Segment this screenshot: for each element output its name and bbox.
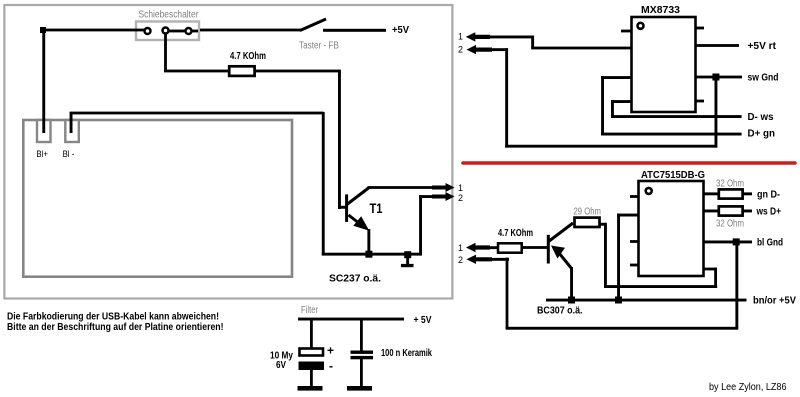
wire arrow1 to R2 [489, 246, 499, 249]
svg-text:4.7 KOhm: 4.7 KOhm [230, 51, 266, 62]
slide switch S1 box [136, 22, 199, 41]
ground bar [401, 264, 414, 267]
wire to Taster [200, 29, 301, 32]
wire Bl- horizontal [70, 112, 324, 115]
wire ws D+ out [742, 210, 752, 213]
svg-text:gn D-: gn D- [757, 189, 780, 200]
wire bl Gnd pin [703, 241, 752, 244]
capacitor C2 plate 2 [351, 356, 374, 359]
arrow 1 right [432, 183, 455, 192]
IC U2 ATC7515DB-G body [639, 181, 704, 276]
wire bottom horizontal to ground [322, 253, 422, 256]
display module rectangle [23, 120, 292, 277]
wire emitter down [570, 267, 573, 300]
wire D- ws pin left [611, 100, 632, 103]
wire between pin2 and pin3 [169, 30, 185, 33]
wire arrow2 bottom horizontal [505, 145, 717, 148]
wire Bl- vertical [70, 112, 73, 133]
wire U2 bottom right down [714, 268, 717, 288]
wire arrow2 right [490, 258, 509, 261]
wire emitter down [367, 229, 370, 255]
resistor R1 [229, 66, 254, 76]
junction U2 pin on +5V rail [615, 297, 622, 304]
svg-text:2: 2 [458, 255, 463, 265]
wire down left of T1 [322, 112, 325, 256]
pin stub left 1 U2 [630, 195, 639, 198]
wire C2 top lead [360, 319, 363, 351]
wire arrow2 down [505, 48, 508, 147]
wire 29 Ohm vertical [604, 223, 607, 287]
svg-text:1: 1 [458, 243, 463, 253]
wire arrow2 horizontal [490, 48, 508, 51]
svg-text:T1: T1 [370, 200, 383, 216]
wire ground loop bottom [506, 327, 739, 330]
wire D- ws horizontal [611, 115, 742, 118]
svg-text:+ 5V: + 5V [414, 315, 432, 326]
wire from pin2 down [164, 33, 167, 72]
svg-text:Bitte an der Beschriftung auf: Bitte an der Beschriftung auf der Platin… [7, 322, 224, 333]
node corner junction [40, 27, 46, 33]
wire U2 bottom right horizontal [604, 285, 717, 288]
resistor 32 Ohm bottom [719, 206, 743, 215]
svg-text:100 n Keramik: 100 n Keramik [381, 348, 432, 359]
capacitor C1 minus plate [299, 362, 325, 371]
outer gray frame [4, 5, 452, 299]
pin box Bl+ [37, 120, 51, 142]
IC U2 pin1 marker [646, 188, 652, 194]
wire U2 left pin [617, 214, 639, 217]
wire up to arrow 2 [419, 195, 422, 255]
switch pin 3 [186, 28, 192, 34]
wire D- ws vertical [611, 100, 614, 117]
arrow 2 right [432, 192, 455, 201]
wire R2 to base [521, 246, 547, 249]
arrow 1 left (USB plug) [466, 32, 490, 41]
svg-text:Bl -: Bl - [63, 149, 75, 160]
svg-text:bl Gnd: bl Gnd [757, 237, 783, 248]
wire collector to arrow [368, 186, 436, 189]
IC U1 MX8733 body [632, 17, 696, 112]
ground stub [406, 254, 409, 265]
pin stub right bottom U1 [696, 100, 704, 103]
transistor T1 emitter arrowhead [353, 216, 369, 231]
junction emitter/bottom [365, 251, 372, 258]
svg-text:ATC7515DB-G: ATC7515DB-G [641, 170, 705, 181]
resistor 32 Ohm top [719, 189, 743, 198]
wire ground loop up to bl Gnd [735, 241, 738, 329]
arrow 1 left (bottom) [466, 243, 490, 252]
svg-text:-: - [329, 359, 333, 373]
svg-text:MX8733: MX8733 [641, 5, 680, 16]
capacitor C2 plate 1 [351, 351, 374, 354]
red divider line [463, 161, 795, 165]
wire C1 bottom lead [310, 370, 313, 387]
pin stub left 3 U2 [630, 264, 639, 267]
switch Taster-FB blade [300, 19, 326, 31]
pin box Bl- [65, 120, 79, 142]
svg-text:29 Ohm: 29 Ohm [574, 206, 602, 217]
svg-text:Filter: Filter [301, 305, 319, 316]
svg-text:4.7 KOhm: 4.7 KOhm [498, 228, 533, 239]
switch pin 1 [145, 28, 151, 34]
resistor 29 Ohm [575, 218, 600, 227]
wire ws D+ pin [703, 210, 719, 213]
wire arrow1 step down [531, 36, 534, 49]
wire arrow1 to U1 [531, 47, 632, 50]
svg-text:D+ gn: D+ gn [748, 129, 776, 140]
svg-text:D- ws: D- ws [748, 112, 774, 123]
svg-text:Schiebeschalter: Schiebeschalter [139, 9, 200, 20]
ground bar C2 [347, 386, 372, 391]
transistor Q1 base bar [547, 235, 550, 264]
svg-text:1: 1 [458, 31, 463, 41]
svg-text:sw Gnd: sw Gnd [748, 73, 779, 84]
svg-text:2: 2 [458, 193, 463, 203]
svg-text:by Lee Zylon, LZ86: by Lee Zylon, LZ86 [709, 382, 787, 393]
wire C1 top lead [310, 319, 313, 348]
wire C2 bottom lead [360, 359, 363, 387]
arrow 2 left (USB plug) [467, 45, 493, 54]
transistor T1 emitter [349, 215, 363, 226]
wire U2 left pin down [617, 214, 620, 301]
wire Bl+ vertical [42, 29, 45, 133]
svg-text:bn/or +5V: bn/or +5V [753, 296, 796, 307]
wire bn/or +5V rail [546, 299, 747, 302]
svg-text:1: 1 [458, 183, 463, 193]
arrow 2 left (bottom) [467, 255, 493, 264]
transistor T1 base bar [345, 194, 348, 222]
wire R1 to corner [255, 70, 339, 73]
svg-text:+5V: +5V [392, 25, 409, 36]
wire D+ gn pin left [601, 76, 632, 79]
wire top left horizontal [41, 29, 145, 32]
pin stub left top U1 [621, 30, 631, 33]
wire down to T1 base [338, 70, 341, 209]
transistor Q1 emitter arrowhead (PNP) [551, 246, 565, 259]
wire arrow1 horizontal [489, 36, 534, 39]
junction bl Gnd [733, 238, 740, 245]
svg-text:2: 2 [458, 44, 463, 54]
wire sw Gnd pin [695, 76, 742, 79]
pin stub left 2 U2 [630, 240, 639, 243]
wire base stub [338, 206, 348, 209]
svg-text:Die Farbkodierung der USB-Kabe: Die Farbkodierung der USB-Kabel kann abw… [7, 312, 219, 323]
wire up to sw Gnd [715, 77, 718, 148]
IC U1 pin1 marker [638, 23, 644, 29]
pin stub right top U1 [696, 27, 704, 30]
svg-text:BC307 o.ä.: BC307 o.ä. [537, 306, 583, 317]
svg-text:ws D+: ws D+ [756, 207, 781, 218]
transistor T1 collector [348, 188, 369, 204]
junction emitter on +5V rail [568, 297, 575, 304]
ground junction dot [404, 251, 411, 258]
wire filter +5V rail [298, 318, 404, 321]
wire +5V rt pin [695, 44, 739, 47]
wire 29 Ohm right [599, 223, 607, 226]
wire Taster to +5V [323, 29, 386, 32]
junction sw Gnd [712, 74, 719, 81]
wire stub after pin3 [192, 30, 198, 33]
resistor R2 4.7 KOhm [498, 243, 522, 252]
wire gn D- out [742, 192, 752, 195]
wire D+ gn vertical [601, 76, 604, 135]
wire to resistor R1 [164, 70, 230, 73]
wire arrow2 down [506, 258, 509, 329]
svg-text:SC237 o.ä.: SC237 o.ä. [329, 274, 381, 285]
svg-text:+: + [327, 344, 334, 358]
wire to arrow 2 horizontal [419, 195, 432, 198]
svg-text:32 Ohm: 32 Ohm [716, 219, 744, 230]
switch pin 2 [163, 28, 169, 34]
svg-text:+5V rt: +5V rt [748, 41, 777, 52]
svg-text:Bl+: Bl+ [36, 149, 48, 160]
wire gn D- pin [703, 192, 719, 195]
transistor Q1 emitter [559, 253, 572, 269]
svg-text:32 Ohm: 32 Ohm [716, 178, 744, 189]
svg-text:6V: 6V [276, 360, 286, 371]
transistor Q1 collector [549, 223, 574, 242]
wire U2 bottom right pin out [703, 268, 717, 271]
capacitor C1 plus plate [300, 349, 324, 356]
ground bar C1 [298, 386, 323, 391]
wire D+ gn horizontal [601, 133, 742, 136]
svg-text:Taster - FB: Taster - FB [299, 41, 339, 52]
